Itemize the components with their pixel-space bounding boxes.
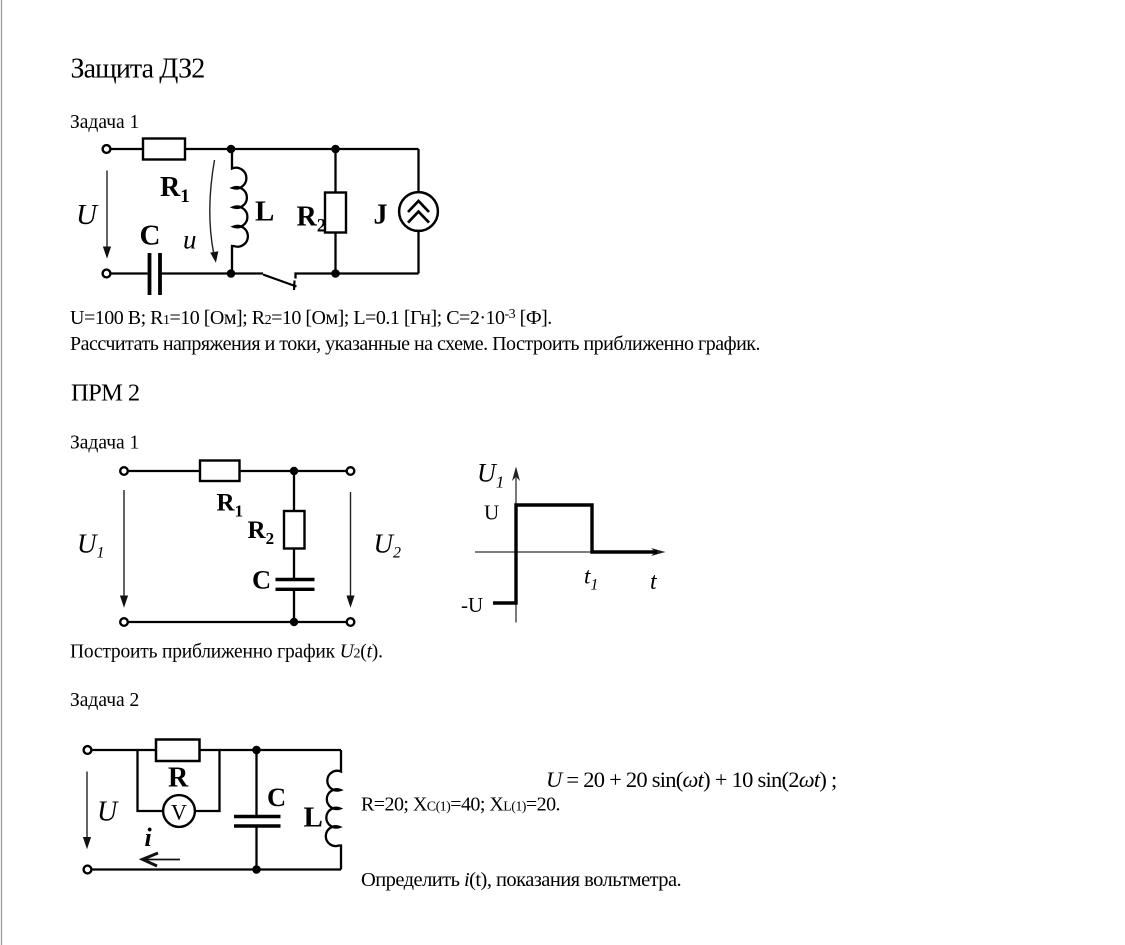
terminal c2 top-right: [347, 467, 355, 475]
svg-text:U=100 В; R1=10 [Ом]; R2=10 [Ом: U=100 В; R1=10 [Ом]; R2=10 [Ом]; L=0.1 […: [70, 307, 552, 329]
svg-text:L: L: [304, 802, 323, 834]
node A top: [227, 145, 236, 154]
arrow u1: [123, 490, 125, 597]
svg-text:R: R: [168, 763, 189, 794]
capacitor C2 plates: [276, 580, 315, 590]
wire R2 to C: [293, 549, 295, 579]
wire bottom: [92, 868, 342, 870]
axis y: [515, 470, 517, 623]
terminal top-left: [103, 145, 111, 153]
current source J arrows: [408, 201, 429, 223]
capacitor C1 plates: [150, 253, 161, 295]
waveform step: [493, 505, 657, 603]
capacitor C3 plates: [234, 817, 281, 827]
svg-text:U: U: [97, 797, 119, 828]
wire C3 bottom: [255, 827, 257, 870]
svg-text:Построить приближенно график U: Построить приближенно график U2(t).: [70, 642, 383, 663]
page left border: [1, 0, 3, 945]
wire C3 top: [255, 750, 257, 815]
axis t: [475, 551, 662, 553]
resistor R2b body: [284, 511, 305, 549]
svg-text:V: V: [171, 800, 187, 825]
inductor L3 coil: [326, 750, 341, 870]
svg-text:C: C: [252, 565, 271, 595]
wire R2 top: [293, 471, 295, 511]
wire C to bottom: [293, 590, 295, 622]
current source J branch wires: [417, 149, 419, 191]
node E: [290, 467, 298, 475]
wire top right: [240, 470, 347, 472]
svg-text:Задача 2: Задача 2: [70, 690, 139, 711]
wire top: [92, 749, 342, 751]
switch contact tick: [293, 281, 296, 291]
wire top left: [111, 148, 144, 150]
arrow U source: [106, 171, 108, 249]
inductor L1 coil: [232, 149, 248, 274]
terminal bottom-left: [103, 270, 111, 278]
svg-text:R=20; XC(1)=40; XL(1)=20.: R=20; XC(1)=40; XL(1)=20.: [361, 794, 560, 816]
terminal c3 bottom-left: [84, 866, 92, 874]
resistor R3 body: [156, 740, 200, 762]
svg-text:L: L: [255, 196, 274, 228]
resistor R2 branch wires: [334, 149, 336, 193]
svg-text:J: J: [374, 200, 388, 231]
terminal c2 bottom-right: [347, 618, 355, 626]
arrow U3: [86, 772, 88, 839]
resistor R1 body: [143, 139, 185, 160]
node D bottom: [331, 269, 340, 278]
voltmeter branch right: [195, 750, 220, 811]
svg-text:Задача 1: Задача 1: [70, 433, 139, 454]
svg-text:C: C: [140, 220, 161, 252]
svg-text:-U: -U: [461, 593, 483, 617]
terminal c2 bottom-left: [120, 618, 128, 626]
arrow i: [143, 859, 180, 861]
switch blade: [263, 275, 297, 287]
svg-text:i: i: [145, 823, 153, 852]
node C bottom: [227, 269, 236, 278]
wire bottom left: [111, 272, 148, 274]
current source J circle: [399, 192, 438, 231]
terminal c3 top-left: [84, 746, 92, 754]
svg-text:Определить i(t), показания вол: Определить i(t), показания вольтметра.: [361, 869, 681, 891]
svg-text:U = 20 + 20 sin(ωt) + 10 sin(2: U = 20 + 20 sin(ωt) + 10 sin(2ωt) ;: [546, 767, 836, 792]
svg-text:ПРМ 2: ПРМ 2: [71, 380, 139, 407]
svg-text:u: u: [183, 225, 197, 255]
node B top: [331, 145, 340, 154]
wire bottom: [128, 621, 347, 623]
wire top left: [128, 470, 200, 472]
curved arrow u: [210, 160, 215, 254]
terminal c2 top-left: [120, 467, 128, 475]
wire bottom right section: [296, 274, 419, 279]
svg-text:Защита ДЗ2: Защита ДЗ2: [71, 54, 205, 85]
node G top: [252, 746, 261, 755]
node F: [290, 618, 298, 626]
wire bottom cap to node: [162, 272, 264, 274]
resistor R2 body: [325, 193, 346, 233]
wire top from R1 to right corner: [185, 148, 419, 150]
svg-text:Задача 1: Задача 1: [70, 112, 139, 133]
node H bottom: [252, 865, 261, 874]
svg-text:U: U: [76, 199, 99, 231]
resistor R1b body: [200, 461, 240, 482]
svg-text:U: U: [484, 501, 499, 525]
svg-text:C: C: [267, 782, 286, 812]
arrow u2: [350, 492, 352, 597]
voltmeter branch left: [138, 750, 164, 811]
svg-text:Рассчитать напряжения и токи,: Рассчитать напряжения и токи, указанные …: [70, 333, 760, 355]
voltmeter V circle: [163, 795, 195, 827]
